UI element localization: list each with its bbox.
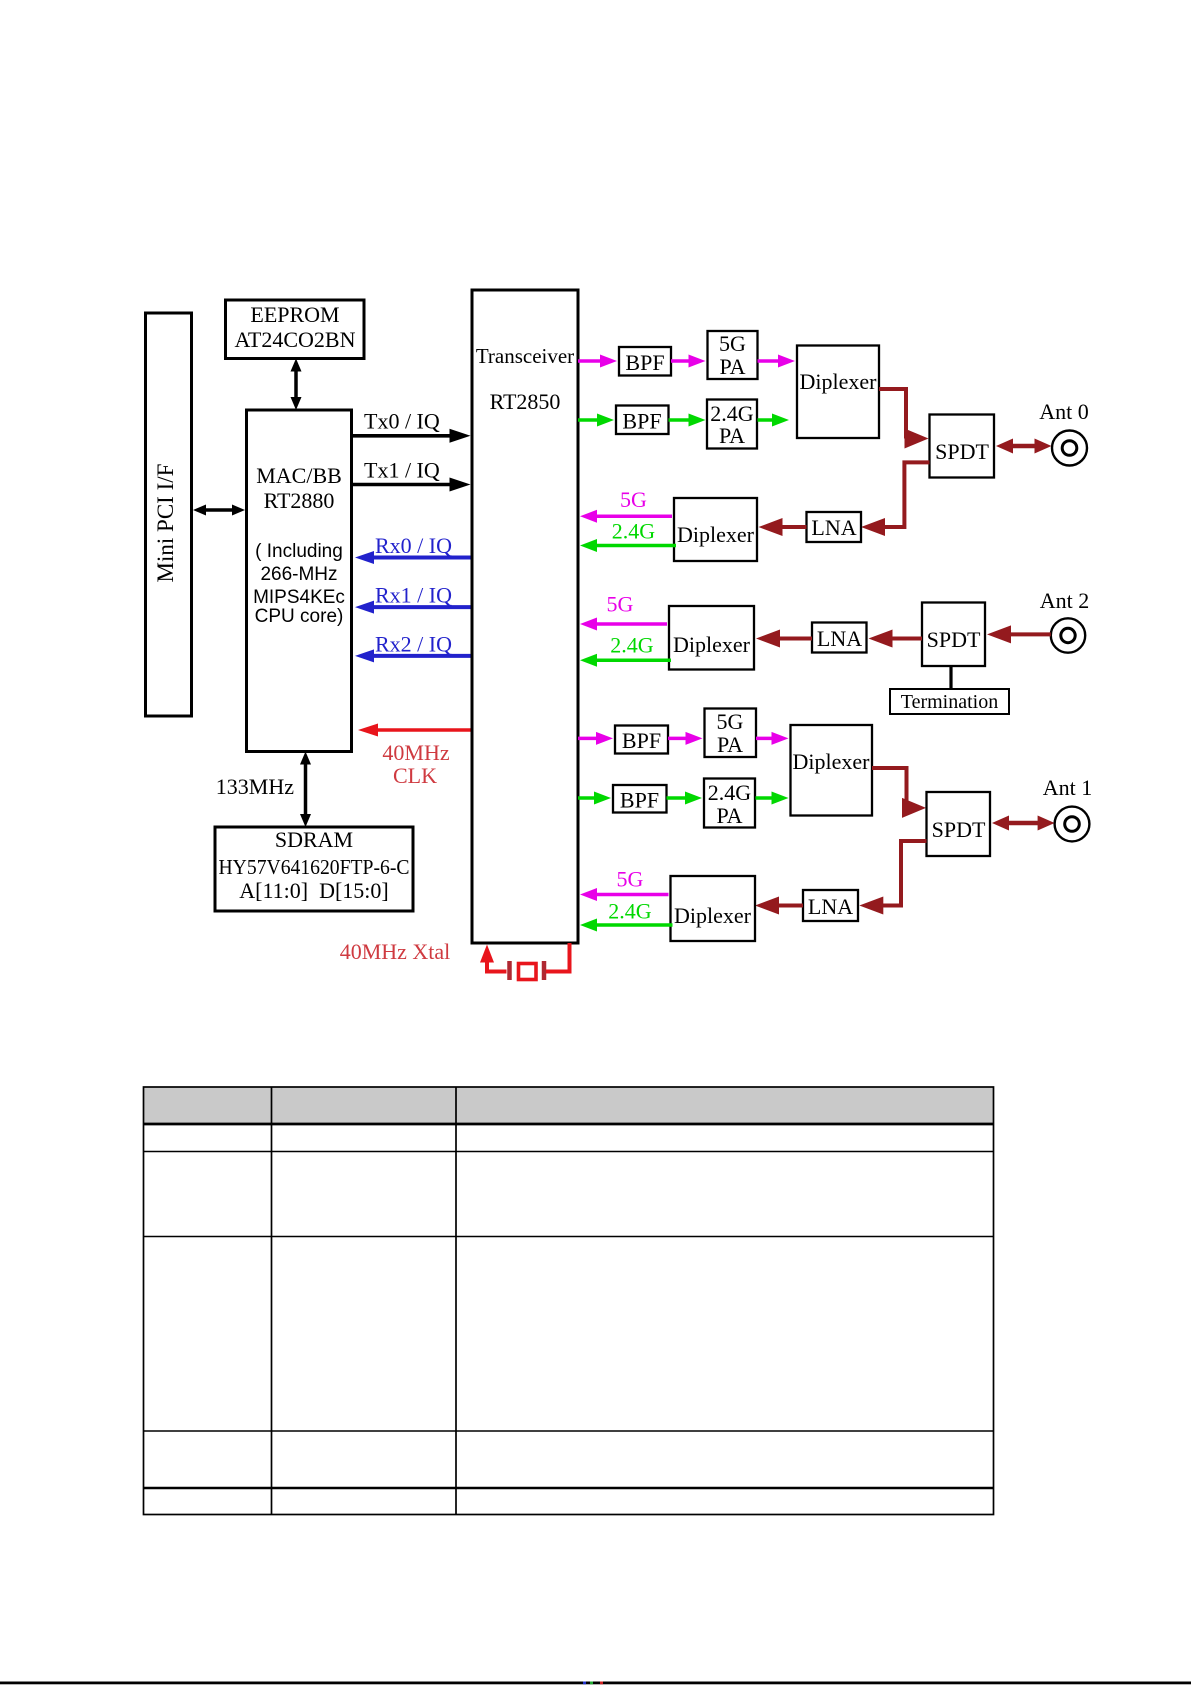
crystal electrode left: [507, 961, 512, 980]
block LNA2: [812, 623, 867, 653]
wire LNA2 to Diplexer3: [778, 637, 812, 641]
svg-text:Diplexer: Diplexer: [673, 632, 751, 657]
antenna Ant2: [1051, 618, 1085, 652]
svg-text:MIPS4KEc: MIPS4KEc: [253, 587, 345, 608]
wire Diplexer3 2.4G out: [595, 659, 671, 663]
wire SPDT2 to LNA2: [891, 637, 923, 641]
table header bottom rule (thick): [144, 1123, 994, 1126]
antenna Ant0: [1052, 431, 1087, 466]
footer rule: [0, 1682, 1191, 1685]
svg-text:PA: PA: [719, 423, 745, 448]
svg-text:5G: 5G: [717, 709, 744, 734]
svg-text:2.4G: 2.4G: [708, 780, 752, 805]
svg-text:EEPROM: EEPROM: [250, 302, 339, 327]
wire 5G PA2 to Diplexer4: [756, 737, 774, 741]
wire BPF1 to 5G PA: [671, 359, 691, 363]
svg-text:2.4G: 2.4G: [608, 899, 652, 924]
wire xcvr to BPF3 (5G tx2): [578, 737, 598, 741]
svg-text:5G: 5G: [719, 331, 746, 356]
block SPDT3: [927, 792, 991, 856]
wire Ant2 to SPDT2: [1009, 632, 1051, 636]
wire MiniPCI-MAC bus: [204, 508, 234, 512]
block Diplexer5: [671, 876, 756, 941]
svg-text:SPDT: SPDT: [932, 817, 986, 842]
svg-text:2.4G: 2.4G: [610, 633, 654, 658]
block EEPROM AT24CO2BN: [226, 300, 365, 359]
svg-text:5G: 5G: [620, 487, 647, 512]
svg-text:CPU core): CPU core): [255, 606, 344, 627]
wire EEPROM-MAC bus: [294, 370, 298, 400]
svg-text:BPF: BPF: [620, 788, 659, 813]
svg-text:SPDT: SPDT: [927, 627, 981, 652]
block BPF2: [616, 406, 669, 435]
svg-text:AT24CO2BN: AT24CO2BN: [234, 327, 355, 352]
table outer border: [144, 1087, 994, 1515]
wire Rx2/IQ: [372, 654, 471, 658]
svg-text:A[11:0] D[15:0]: A[11:0] D[15:0]: [239, 878, 389, 903]
svg-text:Transceiver: Transceiver: [476, 344, 574, 368]
svg-text:PA: PA: [716, 803, 742, 828]
svg-text:PA: PA: [719, 354, 745, 379]
wire Diplexer5 2.4G out: [595, 923, 673, 927]
crystal electrode right: [542, 961, 547, 980]
wire Rx0/IQ: [372, 556, 471, 560]
svg-text:266-MHz: 266-MHz: [260, 564, 337, 585]
svg-text:SDRAM: SDRAM: [275, 827, 353, 852]
svg-text:Tx1 / IQ: Tx1 / IQ: [364, 458, 440, 483]
svg-text:Diplexer: Diplexer: [677, 522, 755, 547]
block Diplexer3: [669, 606, 754, 670]
svg-text:Mini PCI I/F: Mini PCI I/F: [153, 464, 178, 583]
svg-text:Rx0 / IQ: Rx0 / IQ: [375, 533, 452, 558]
wire SPDT3 to Ant1: [1007, 821, 1040, 826]
wire xcvr to BPF1 (5G tx): [578, 359, 602, 363]
wire Tx1/IQ: [352, 483, 452, 487]
table column rule 1: [271, 1087, 273, 1515]
svg-text:BPF: BPF: [625, 350, 664, 375]
svg-text:Ant 0: Ant 0: [1039, 399, 1089, 424]
wire crystal left branch with up arrow: [487, 960, 507, 972]
block Termination: [890, 689, 1009, 714]
block 2.4G PA (top): [707, 400, 757, 449]
svg-text:Ant 1: Ant 1: [1043, 775, 1093, 800]
wire Rx1/IQ: [372, 605, 471, 609]
wire 2.4G PA out: [758, 418, 775, 422]
wire Diplexer1 to SPDT1 (corner): [879, 389, 906, 439]
wire BPF2 to 2.4G PA: [669, 418, 691, 422]
wire 40MHz CLK: [376, 728, 471, 732]
wire MAC-SDRAM bus: [304, 763, 308, 817]
svg-text:Diplexer: Diplexer: [674, 903, 752, 928]
wire SPDT2 to Termination: [949, 666, 952, 689]
block MAC/BB RT2880: [247, 410, 352, 752]
table row rule 2: [144, 1236, 994, 1238]
wire Diplexer5 5G out: [595, 893, 669, 897]
svg-text:PA: PA: [717, 732, 743, 757]
wire Diplexer2 2.4G out: [595, 544, 676, 548]
svg-text:BPF: BPF: [622, 728, 661, 753]
svg-text:Ant 2: Ant 2: [1040, 588, 1090, 613]
crystal X1 body: [519, 964, 537, 980]
wire Diplexer4 to SPDT3 (corner): [872, 768, 907, 808]
svg-text:Tx0 / IQ: Tx0 / IQ: [364, 409, 440, 434]
svg-text:5G: 5G: [607, 592, 634, 617]
svg-text:BPF: BPF: [622, 409, 661, 434]
block BPF1: [619, 347, 671, 376]
svg-text:MAC/BB: MAC/BB: [256, 463, 342, 488]
table row rule 4 (thick): [144, 1487, 994, 1489]
svg-text:LNA: LNA: [811, 515, 856, 540]
wire LNA1 to Diplexer2: [781, 525, 807, 529]
svg-text:40MHz: 40MHz: [382, 740, 449, 765]
svg-text:SPDT: SPDT: [935, 439, 989, 464]
block 5G PA (bottom): [705, 709, 757, 758]
svg-text:HY57V641620FTP-6-C: HY57V641620FTP-6-C: [219, 855, 410, 879]
wire xcvr to BPF2 (2.4G tx): [578, 418, 599, 422]
svg-text:133MHz: 133MHz: [216, 774, 294, 799]
wire SPDT1 to Ant0: [1011, 444, 1037, 449]
svg-text:Termination: Termination: [901, 691, 998, 713]
block 2.4G PA (bottom): [704, 779, 755, 828]
block BPF3: [615, 726, 668, 754]
footer page marker: [583, 1682, 586, 1685]
block SPDT2: [922, 603, 985, 667]
svg-text:( Including: ( Including: [255, 541, 343, 562]
svg-text:2.4G: 2.4G: [612, 519, 656, 544]
wire crystal right branch: [546, 943, 570, 972]
block LNA3: [803, 890, 858, 921]
table column rule 2: [455, 1087, 457, 1515]
block Diplexer4: [791, 725, 873, 816]
table row rule 1: [144, 1151, 994, 1153]
svg-text:RT2880: RT2880: [264, 488, 335, 513]
svg-text:LNA: LNA: [808, 894, 853, 919]
block SPDT1: [930, 415, 995, 478]
wire BPF3 to 5G PA2: [668, 737, 688, 741]
wire 2.4G PA2 out: [756, 796, 774, 800]
svg-text:Rx1 / IQ: Rx1 / IQ: [375, 583, 452, 608]
block Diplexer1: [797, 346, 879, 439]
svg-text:LNA: LNA: [817, 626, 862, 651]
block Transceiver RT2850: [472, 290, 578, 943]
block LNA1: [807, 512, 862, 542]
svg-text:5G: 5G: [617, 867, 644, 892]
table header fill: [144, 1088, 993, 1124]
svg-text:Rx2 / IQ: Rx2 / IQ: [375, 632, 452, 657]
wire Diplexer2 5G out: [595, 515, 672, 519]
wire SPDT3 to LNA3 (corner): [882, 841, 927, 906]
block Diplexer2: [674, 498, 757, 561]
block 5G PA (top): [708, 331, 758, 379]
table row rule 3: [144, 1430, 994, 1432]
block SDRAM: [215, 827, 413, 911]
svg-text:CLK: CLK: [393, 763, 437, 788]
wire xcvr to BPF4 (2.4G tx2): [578, 796, 596, 800]
wire LNA3 to Diplexer5: [777, 904, 803, 908]
block Mini PCI I/F: [146, 313, 192, 716]
wire BPF4 to 2.4G PA2: [667, 796, 688, 800]
wire SPDT1 to LNA1 (corner): [884, 462, 930, 527]
wire Tx0/IQ: [352, 434, 452, 438]
svg-text:Diplexer: Diplexer: [800, 369, 878, 394]
block BPF4: [613, 785, 667, 813]
wire 5G PA to Diplexer1: [758, 359, 781, 363]
wire Diplexer3 5G out: [595, 622, 667, 626]
antenna Ant1: [1055, 807, 1090, 842]
svg-text:40MHz Xtal: 40MHz Xtal: [340, 939, 451, 964]
svg-text:RT2850: RT2850: [490, 389, 561, 414]
svg-text:Diplexer: Diplexer: [793, 749, 871, 774]
